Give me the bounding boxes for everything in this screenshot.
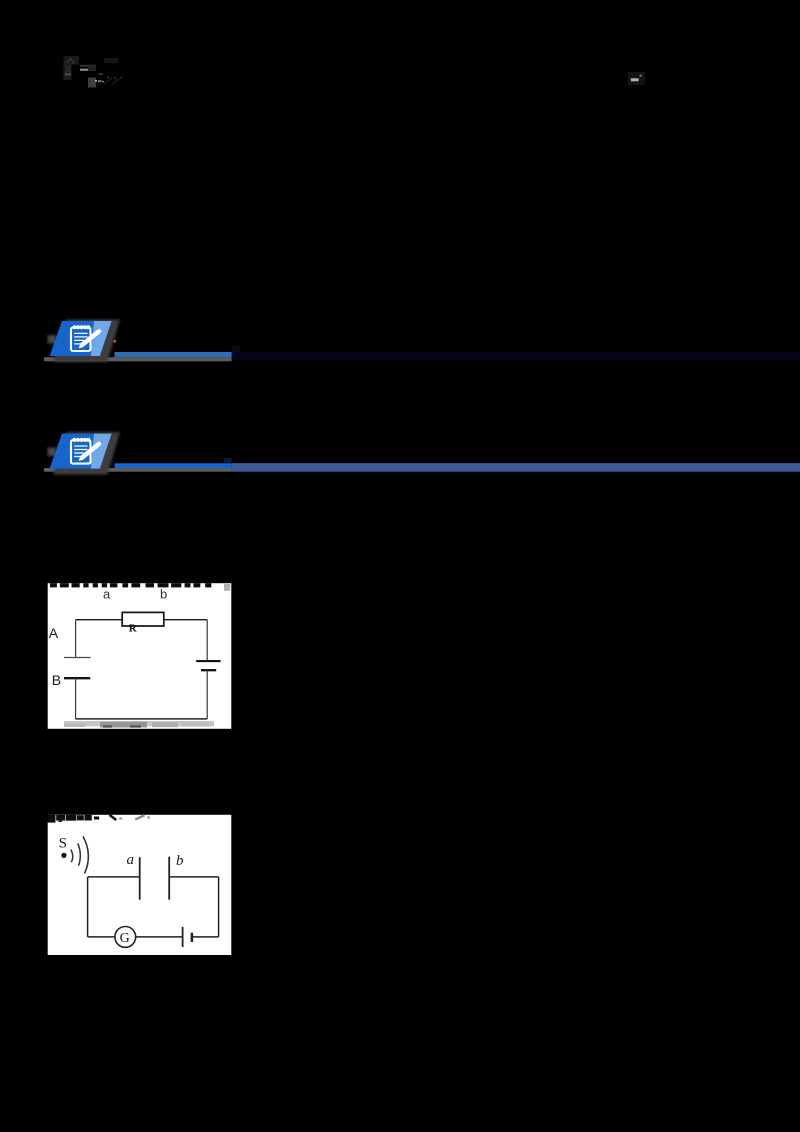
cropped text dashes at top of panel 1 (50, 583, 211, 587)
svg-text:G: G (120, 931, 130, 946)
sound wave arc 3 (83, 836, 88, 873)
sound source dot (61, 853, 66, 858)
wire: left branch fig 2 (87, 877, 89, 937)
svg-text:B: B (52, 672, 61, 688)
svg-text:b: b (160, 586, 167, 601)
capacitor plate a (vertical) (139, 857, 141, 900)
wire: bottom middle segment fig 2 (136, 936, 183, 938)
sound wave arc 2 (78, 843, 81, 866)
capacitor plate b (vertical) (168, 857, 170, 900)
note heading row 1 : underline bright tip (226, 352, 232, 357)
figure panel 2 (white) (48, 815, 232, 955)
wire: bottom fig 1 (76, 718, 208, 720)
wire: bottom left segment fig 2 (88, 936, 115, 938)
note heading row 2 : gray shadow under line (44, 468, 232, 472)
note heading row 1 : gray shadow under line (44, 357, 232, 361)
handwritten formula block top-left (64, 56, 123, 88)
capacitor plate A (top) (64, 657, 91, 659)
svg-text:A: A (49, 625, 59, 641)
cropped text marks at top of panel 2 (47, 815, 149, 823)
wire: bottom right segment fig 2 (192, 936, 219, 938)
note icon 2 (blue parallelogram with notepad and pencil) (48, 432, 120, 475)
wire: right branch fig 2 (218, 877, 220, 937)
svg-text:b: b (176, 853, 184, 869)
galvanometer G circle (115, 927, 136, 948)
small superscript mark top right (628, 72, 645, 85)
capacitor plate B (bottom) (64, 677, 90, 679)
svg-text:a: a (127, 852, 135, 868)
note heading row 2 : underline bright tip (224, 463, 232, 468)
note heading row 1 : navy underline right segment (232, 352, 800, 360)
wire: left branch upper fig 1 (75, 620, 77, 658)
wire: top left segment fig 1 (76, 619, 123, 621)
wire: left branch lower fig 1 (75, 678, 77, 719)
wire: top right segment fig 2 (169, 876, 218, 878)
note heading row 1 : bright blue underline (115, 352, 226, 357)
orange speck right of icon 1 (114, 340, 117, 343)
note heading row 2 : dark block above line tip (224, 458, 232, 463)
note heading row 2 : bright blue underline (115, 463, 225, 468)
wire: right branch upper fig 1 (206, 620, 208, 661)
battery long plate fig 1 (196, 660, 220, 662)
wire: top right segment fig 1 (164, 619, 207, 621)
wire: top left segment fig 2 (88, 876, 140, 878)
note heading row 2 : slate underline right segment (232, 463, 800, 472)
wire: right branch lower fig 1 (206, 670, 208, 719)
svg-text:R: R (129, 622, 138, 634)
sound wave arc 1 (71, 850, 73, 863)
note icon 1 (blue parallelogram with notepad and pencil) (48, 320, 120, 363)
svg-text:a: a (103, 586, 111, 601)
resistor R (box) (122, 612, 164, 626)
battery short plate fig 2 (191, 933, 194, 942)
svg-text:S: S (59, 836, 67, 852)
figure panel 1 (white) (48, 583, 232, 729)
cropped gray text at bottom of panel 1 (64, 721, 214, 728)
gray square top-right corner of panel 1 (224, 584, 230, 591)
battery short plate fig 1 (201, 669, 216, 671)
battery long plate fig 2 (182, 927, 184, 947)
note heading row 1 : faint dark block above line tip (232, 346, 240, 352)
